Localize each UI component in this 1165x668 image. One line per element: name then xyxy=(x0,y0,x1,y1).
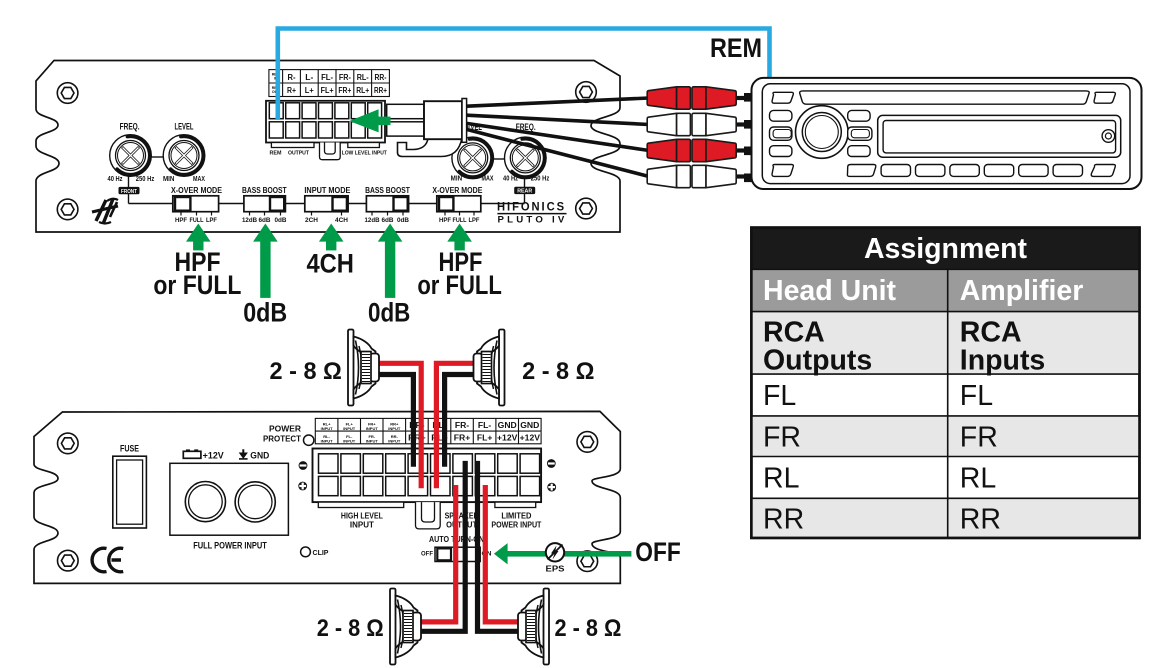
caption speaker output xyxy=(445,512,479,530)
EPS logo xyxy=(546,543,565,573)
speaker rear-right xyxy=(518,589,549,665)
label impedance front-left xyxy=(270,358,342,385)
svg-text:Assignment: Assignment xyxy=(864,233,1028,265)
switch X-OVER MODE front xyxy=(171,185,222,224)
svg-text:RR: RR xyxy=(960,504,1001,536)
head unit jack stubs xyxy=(744,93,753,182)
green arrow into low level input xyxy=(349,109,390,132)
svg-text:0dB: 0dB xyxy=(275,218,288,224)
svg-text:LPF: LPF xyxy=(469,218,480,224)
amplifier rear panel (bottom) outline xyxy=(34,411,620,583)
svg-text:6dB: 6dB xyxy=(382,218,395,224)
green arrow HPF rear xyxy=(447,224,472,251)
green arrow OFF xyxy=(494,543,632,564)
table header Head Unit xyxy=(763,275,897,307)
green arrow 4CH xyxy=(319,224,344,251)
wire speaker RL black xyxy=(418,461,465,631)
label 4CH xyxy=(306,249,354,279)
screw top-left xyxy=(57,83,78,104)
svg-text:RR-: RR- xyxy=(375,72,387,82)
svg-text:FL-: FL- xyxy=(321,72,333,82)
svg-text:GND: GND xyxy=(520,420,539,430)
svg-text:FL+: FL+ xyxy=(477,433,493,443)
svg-text:PROTECT: PROTECT xyxy=(263,434,302,444)
screw bottom-right xyxy=(576,198,597,219)
FRONT badge xyxy=(119,187,140,195)
svg-text:INPUT: INPUT xyxy=(388,426,401,431)
wire speaker RL red xyxy=(418,485,456,622)
screw bottom amp top-right xyxy=(577,432,598,453)
svg-text:REM: REM xyxy=(270,151,282,157)
head unit bottom-left button xyxy=(772,165,793,177)
svg-text:2 - 8 Ω: 2 - 8 Ω xyxy=(555,615,622,642)
svg-text:PLUTO IV: PLUTO IV xyxy=(498,215,568,225)
minus plus marks right xyxy=(547,459,556,491)
screw top-right xyxy=(576,82,597,103)
svg-text:+12V: +12V xyxy=(203,450,224,460)
fuse holder xyxy=(113,444,147,529)
amplifier front panel (top) outline xyxy=(36,61,620,233)
svg-text:FR-: FR- xyxy=(455,420,469,430)
svg-text:Outputs: Outputs xyxy=(763,345,872,377)
svg-text:Head Unit: Head Unit xyxy=(763,275,897,307)
svg-text:LPF: LPF xyxy=(206,218,217,224)
wire speaker RR black xyxy=(478,461,524,631)
svg-text:INPUT: INPUT xyxy=(321,438,334,443)
table row FL xyxy=(763,380,993,412)
head unit top-right button xyxy=(1094,92,1115,103)
svg-text:LEVEL: LEVEL xyxy=(175,122,194,133)
svg-text:CLIP: CLIP xyxy=(313,548,329,557)
RCA cable 4 xyxy=(467,129,649,176)
head unit display xyxy=(878,115,1121,157)
svg-text:Inputs: Inputs xyxy=(960,345,1046,377)
knob FREQ front xyxy=(108,122,155,184)
svg-text:OFF: OFF xyxy=(421,551,433,558)
svg-text:0dB: 0dB xyxy=(397,218,410,224)
svg-text:HPF: HPF xyxy=(175,218,187,224)
svg-text:BASS BOOST: BASS BOOST xyxy=(365,185,410,195)
wire speaker FR black xyxy=(445,375,478,467)
svg-text:REM: REM xyxy=(710,33,762,63)
svg-text:INPUT: INPUT xyxy=(388,438,401,443)
label impedance front-right xyxy=(522,358,594,385)
svg-text:HIGH LEVEL: HIGH LEVEL xyxy=(341,512,383,521)
svg-text:4CH: 4CH xyxy=(306,249,354,279)
svg-text:R-: R- xyxy=(288,72,296,82)
svg-text:2 - 8 Ω: 2 - 8 Ω xyxy=(317,615,384,642)
wire switch link line xyxy=(129,170,525,204)
svg-text:+12V: +12V xyxy=(520,433,541,443)
svg-text:POWER INPUT: POWER INPUT xyxy=(491,521,541,530)
svg-text:X-OVER MODE: X-OVER MODE xyxy=(432,185,482,195)
svg-text:POWER: POWER xyxy=(269,424,301,434)
svg-text:FULL: FULL xyxy=(453,218,467,224)
table row FR xyxy=(763,422,998,454)
HF logo xyxy=(92,199,118,224)
green arrow 0dB rear xyxy=(378,224,403,298)
svg-text:MAX: MAX xyxy=(193,176,205,183)
rear connector block xyxy=(313,449,542,529)
terminal grid labels row1 xyxy=(272,72,387,82)
svg-text:MIN: MIN xyxy=(451,175,463,182)
wire speaker FL black xyxy=(376,375,413,467)
label impedance rear-right xyxy=(555,615,622,642)
svg-text:0dB: 0dB xyxy=(368,298,410,328)
label 0dB front xyxy=(243,298,287,328)
terminal label grid (top amp) xyxy=(269,70,390,97)
speaker front-left xyxy=(348,330,379,406)
RCA connector red RL xyxy=(647,139,750,161)
power protect indicator xyxy=(263,424,314,446)
speaker front-right xyxy=(474,330,505,406)
svg-text:0dB: 0dB xyxy=(243,298,287,328)
speaker rear-left xyxy=(390,589,421,665)
svg-text:RL-: RL- xyxy=(357,72,369,82)
svg-text:6dB: 6dB xyxy=(259,218,272,224)
svg-text:INPUT: INPUT xyxy=(343,426,356,431)
svg-text:L+: L+ xyxy=(305,85,314,95)
svg-text:FL: FL xyxy=(763,380,796,412)
assignment table xyxy=(751,228,1139,538)
svg-text:250 Hz: 250 Hz xyxy=(531,175,550,182)
low level input connector block xyxy=(266,101,385,160)
rear grid tiny input labels xyxy=(321,422,401,444)
table row RL xyxy=(763,463,996,495)
knob FREQ rear xyxy=(494,122,550,182)
switch BASS BOOST front xyxy=(242,185,287,224)
wire speaker FL red xyxy=(376,363,421,488)
table header Amplifier xyxy=(960,275,1084,307)
head unit right buttons xyxy=(848,110,872,156)
svg-text:BASS BOOST: BASS BOOST xyxy=(242,185,287,195)
svg-text:FREQ.: FREQ. xyxy=(120,122,140,133)
svg-text:4CH: 4CH xyxy=(335,218,348,224)
svg-text:GND: GND xyxy=(250,450,269,460)
green arrow HPF front xyxy=(186,224,211,251)
svg-text:INPUT MODE: INPUT MODE xyxy=(304,185,350,195)
svg-text:FL+: FL+ xyxy=(321,85,334,95)
svg-text:FR: FR xyxy=(763,422,801,454)
svg-text:L-: L- xyxy=(305,72,313,82)
green arrow 0dB front xyxy=(253,224,278,298)
table title Assignment xyxy=(864,233,1028,265)
minus plus marks left xyxy=(298,461,307,490)
svg-text:INPUT: INPUT xyxy=(366,438,379,443)
head unit eject button xyxy=(1102,130,1115,143)
svg-text:40 Hz: 40 Hz xyxy=(503,175,518,182)
svg-text:FR-: FR- xyxy=(339,72,351,82)
rear grid labels row1 xyxy=(409,420,539,430)
connector block captions xyxy=(270,151,388,157)
svg-text:12dB: 12dB xyxy=(242,218,258,224)
switch BASS BOOST rear xyxy=(365,185,411,224)
caption limited power input xyxy=(491,512,541,530)
svg-text:FR+: FR+ xyxy=(454,433,470,443)
cable strain relief hook xyxy=(398,138,463,157)
svg-text:RR: RR xyxy=(763,504,804,536)
knob LEVEL front xyxy=(151,122,205,184)
svg-text:FL: FL xyxy=(960,380,993,412)
svg-text:INPUT: INPUT xyxy=(343,438,356,443)
caption high level input xyxy=(341,512,383,530)
chassis ground symbol GND xyxy=(239,449,270,460)
head unit body xyxy=(752,78,1142,189)
svg-text:FUSE: FUSE xyxy=(120,444,139,454)
svg-text:Amplifier: Amplifier xyxy=(960,275,1084,307)
svg-text:FRONT: FRONT xyxy=(121,189,137,195)
svg-text:REAR: REAR xyxy=(517,189,532,195)
head unit top-left button xyxy=(772,92,793,103)
full power input box xyxy=(170,463,289,550)
head unit volume knob xyxy=(796,106,849,159)
CE mark xyxy=(92,548,123,572)
svg-text:RR+: RR+ xyxy=(374,85,387,95)
svg-text:RL: RL xyxy=(960,463,996,495)
label impedance rear-left xyxy=(317,615,384,642)
svg-text:FULL: FULL xyxy=(190,218,204,224)
svg-text:SPEAKER: SPEAKER xyxy=(445,512,479,521)
terminal grid labels row2 xyxy=(272,85,387,95)
svg-text:EPS: EPS xyxy=(546,564,565,574)
ribbon cable strips to plug xyxy=(387,104,424,136)
RCA cable 2 xyxy=(467,115,649,124)
rear terminal label grid xyxy=(315,418,541,443)
svg-text:GND: GND xyxy=(498,420,517,430)
HIFONICS PLUTO IV logo xyxy=(497,202,568,225)
svg-text:HIFONICS: HIFONICS xyxy=(497,202,566,214)
label 0dB rear xyxy=(368,298,410,328)
RCA connector white RR xyxy=(647,165,750,187)
head unit cd slot xyxy=(800,91,1090,104)
label HPF or FULL front xyxy=(153,247,241,300)
svg-text:2 - 8 Ω: 2 - 8 Ω xyxy=(270,358,342,385)
blue REM wire xyxy=(278,29,770,120)
svg-text:+12V: +12V xyxy=(497,433,518,443)
svg-text:2 - 8 Ω: 2 - 8 Ω xyxy=(522,358,594,385)
table row RR xyxy=(763,504,1001,536)
wire speaker RR red xyxy=(485,485,523,622)
svg-text:FULL POWER INPUT: FULL POWER INPUT xyxy=(193,540,267,550)
auto turn-on switch xyxy=(421,535,492,561)
svg-text:MAX: MAX xyxy=(482,175,494,182)
svg-text:LIMITED: LIMITED xyxy=(501,512,531,521)
svg-text:LOW LEVEL INPUT: LOW LEVEL INPUT xyxy=(342,151,387,157)
clip indicator xyxy=(301,547,329,557)
svg-text:12dB: 12dB xyxy=(365,218,381,224)
svg-text:40 Hz: 40 Hz xyxy=(108,176,123,183)
svg-text:250 Hz: 250 Hz xyxy=(136,176,155,183)
svg-text:OFF: OFF xyxy=(635,537,681,567)
svg-text:X-OVER MODE: X-OVER MODE xyxy=(171,185,222,195)
REAR badge xyxy=(514,187,535,195)
switch X-OVER MODE rear xyxy=(432,185,482,224)
svg-text:RL: RL xyxy=(763,463,799,495)
screw bottom amp bottom-left xyxy=(58,550,79,571)
screw bottom amp top-left xyxy=(58,433,79,454)
svg-text:2CH: 2CH xyxy=(305,218,318,224)
RCA plug housing at amp xyxy=(424,99,467,143)
knob LEVEL rear xyxy=(451,122,494,182)
screw bottom amp bottom-right xyxy=(577,551,598,572)
svg-text:OUTPUT: OUTPUT xyxy=(446,521,477,530)
svg-text:R+: R+ xyxy=(287,85,296,95)
RCA connector red FL xyxy=(647,87,750,109)
svg-text:or FULL: or FULL xyxy=(153,270,241,300)
table cell RCA Inputs xyxy=(960,317,1046,377)
svg-text:INPUT: INPUT xyxy=(321,426,334,431)
RCA cable 3 xyxy=(467,123,649,150)
svg-text:INPUT: INPUT xyxy=(366,426,379,431)
RCA connector white FR xyxy=(647,113,750,135)
label HPF or FULL rear xyxy=(417,247,502,300)
svg-text:RL+: RL+ xyxy=(356,85,369,95)
label OFF xyxy=(635,537,681,567)
svg-text:FL-: FL- xyxy=(478,420,491,430)
battery symbol +12V xyxy=(183,450,224,460)
switch INPUT MODE xyxy=(304,185,350,224)
svg-text:FR+: FR+ xyxy=(338,85,351,95)
svg-text:OUTPUT: OUTPUT xyxy=(288,151,309,157)
head unit left buttons xyxy=(770,110,792,156)
head unit bottom button row xyxy=(847,165,1115,177)
table cell RCA Outputs xyxy=(763,317,872,377)
REM label xyxy=(710,33,762,63)
svg-text:or FULL: or FULL xyxy=(417,270,502,300)
svg-text:HPF: HPF xyxy=(439,218,451,224)
RCA cable 1 xyxy=(467,98,649,106)
svg-text:MIN: MIN xyxy=(163,176,175,183)
svg-text:FR: FR xyxy=(960,422,998,454)
screw bottom-left xyxy=(57,199,78,220)
svg-text:INPUT: INPUT xyxy=(350,521,374,530)
rear grid labels row2 xyxy=(408,433,540,443)
wire speaker FR red xyxy=(436,363,478,488)
